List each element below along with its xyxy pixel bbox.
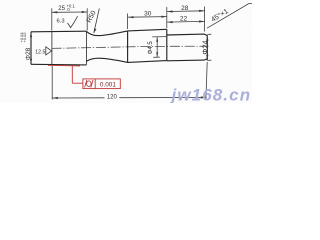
dim 25 extension lines	[51, 8, 53, 30]
step line 1	[51, 32, 53, 65]
roughness 12.5 symbol left section	[35, 47, 51, 56]
hole dim arrows	[156, 37, 158, 42]
right section bottom edge with chamfer	[167, 59, 208, 61]
hole bar top	[152, 36, 167, 38]
top edge left sections	[31, 30, 86, 33]
dim 120 line	[52, 96, 206, 99]
big section right edge	[166, 29, 168, 60]
dim 30 extension lines	[127, 14, 129, 30]
phi24 extension ticks	[207, 33, 211, 35]
hole bar bottom	[153, 56, 160, 58]
dim 25 line	[52, 11, 87, 13]
left end face	[30, 32, 32, 65]
dim 22 arrows	[167, 21, 173, 23]
dim text 25 +0.1	[58, 4, 75, 12]
cylindricity symbol	[85, 80, 93, 88]
red GDT leader	[48, 65, 83, 83]
dim 30 line	[128, 16, 167, 19]
R50 arrow	[94, 28, 97, 33]
dim 28/22 right extension	[204, 7, 206, 32]
step line 2 (neck start wall)	[85, 31, 87, 65]
dim 120 extension left	[51, 66, 53, 100]
big section bottom edge	[128, 61, 167, 63]
neck bottom curve	[86, 58, 127, 62]
dim 30 arrows	[128, 16, 134, 18]
dim 120 arrows	[52, 97, 58, 99]
chamfer leader	[207, 3, 252, 28]
dim 25 arrows	[52, 11, 58, 13]
red GDT frame	[83, 79, 120, 89]
dim 28 arrows	[167, 10, 173, 12]
hole dim line	[156, 37, 158, 57]
big section left edge	[127, 31, 129, 63]
phi28 vertical text	[19, 32, 32, 61]
dim 28 line	[167, 10, 205, 13]
right section top edge with chamfer	[167, 34, 208, 36]
dim 22 line	[167, 20, 205, 23]
phi28 arrows on left face	[30, 32, 32, 38]
bottom edge left sections	[31, 63, 86, 66]
roughness 6.3 symbol	[57, 16, 78, 27]
phi18 arrows on end face	[206, 35, 208, 41]
neck top curve	[86, 31, 127, 36]
centerline	[52, 46, 209, 48]
dimension graphics	[52, 3, 252, 99]
arrowheads	[30, 10, 209, 99]
big section top edge	[128, 29, 167, 31]
dim 120 extension right	[206, 62, 207, 100]
right end face / phi dim line	[206, 35, 208, 60]
scan noise overlay	[0, 0, 252, 103]
R50 leader	[94, 9, 100, 34]
